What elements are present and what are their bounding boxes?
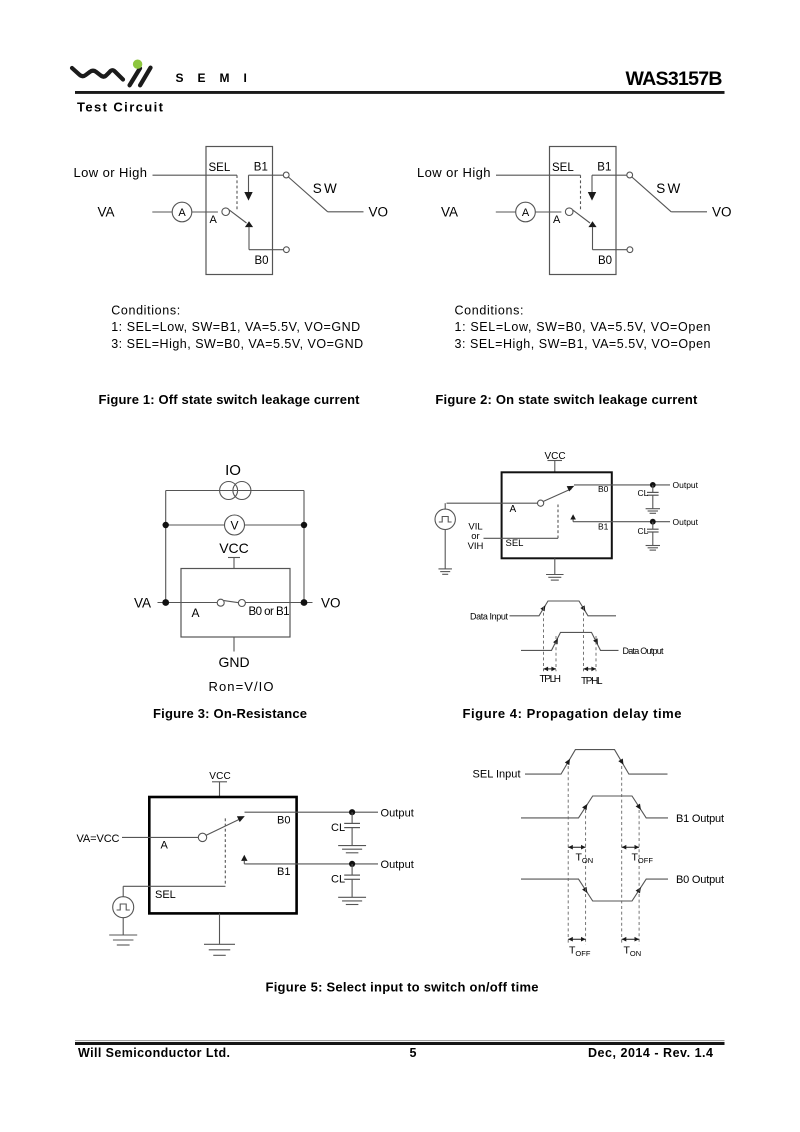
svg-text:Output: Output <box>381 859 414 871</box>
svg-text:1: SEL=Low, SW=B1, VA=5.5V, VO: 1: SEL=Low, SW=B1, VA=5.5V, VO=GND <box>111 320 360 334</box>
svg-text:VIH: VIH <box>468 541 484 552</box>
svg-text:Figure 1: Off state switch lea: Figure 1: Off state switch leakage curre… <box>99 392 361 407</box>
svg-text:GND: GND <box>218 654 249 670</box>
svg-text:Data Input: Data Input <box>470 611 508 621</box>
svg-text:CL: CL <box>638 526 649 536</box>
svg-text:IO: IO <box>225 462 241 479</box>
svg-text:VCC: VCC <box>209 771 230 782</box>
svg-text:3: SEL=High, SW=B0, VA=5.5V, V: 3: SEL=High, SW=B0, VA=5.5V, VO=GND <box>111 337 363 351</box>
svg-text:CL: CL <box>331 822 345 834</box>
svg-text:CL: CL <box>638 488 649 498</box>
svg-text:B0 or B1: B0 or B1 <box>249 606 290 618</box>
svg-text:VO: VO <box>321 595 341 610</box>
svg-text:B1 Output: B1 Output <box>676 813 724 825</box>
svg-text:A: A <box>192 606 200 620</box>
svg-text:Will Semiconductor Ltd.: Will Semiconductor Ltd. <box>78 1046 230 1060</box>
svg-text:Output: Output <box>673 517 699 527</box>
svg-text:B0: B0 <box>255 255 269 267</box>
svg-text:WAS3157B: WAS3157B <box>626 68 723 90</box>
svg-text:SEMI: SEMI <box>176 71 261 85</box>
svg-text:VA: VA <box>98 205 115 220</box>
svg-text:SEL: SEL <box>155 889 176 901</box>
svg-text:Ron=V/IO: Ron=V/IO <box>209 679 274 694</box>
svg-text:3: SEL=High, SW=B1, VA=5.5V, V: 3: SEL=High, SW=B1, VA=5.5V, VO=Open <box>455 337 711 351</box>
svg-text:TON: TON <box>624 945 642 959</box>
svg-text:CL: CL <box>331 874 345 886</box>
svg-text:B0 Output: B0 Output <box>676 874 724 886</box>
svg-text:Figure 2: On state switch leak: Figure 2: On state switch leakage curren… <box>435 392 698 407</box>
svg-text:5: 5 <box>410 1046 417 1060</box>
svg-text:Figure 4: Propagation delay ti: Figure 4: Propagation delay time <box>463 706 682 721</box>
svg-text:Figure 3: On-Resistance: Figure 3: On-Resistance <box>153 706 307 721</box>
svg-text:SEL: SEL <box>506 538 524 549</box>
svg-text:B1: B1 <box>277 866 290 878</box>
svg-text:Dec, 2014 - Rev. 1.4: Dec, 2014 - Rev. 1.4 <box>588 1046 713 1060</box>
svg-text:B1: B1 <box>598 522 609 532</box>
svg-text:Test Circuit: Test Circuit <box>77 99 164 114</box>
svg-text:Low or High: Low or High <box>74 165 148 180</box>
svg-text:Conditions:: Conditions: <box>111 304 180 318</box>
svg-text:SEL Input: SEL Input <box>473 768 521 780</box>
svg-text:A: A <box>210 214 218 226</box>
svg-text:SW: SW <box>313 181 337 196</box>
svg-text:TPLH: TPLH <box>540 674 562 685</box>
svg-text:A: A <box>178 207 186 219</box>
svg-text:VCC: VCC <box>219 540 249 556</box>
svg-text:Conditions:: Conditions: <box>455 304 524 318</box>
svg-text:SEL: SEL <box>209 162 231 174</box>
svg-text:TON: TON <box>576 852 594 866</box>
svg-text:B0: B0 <box>277 815 290 827</box>
svg-text:Output: Output <box>381 808 414 820</box>
svg-text:VA: VA <box>134 595 151 610</box>
svg-text:Output: Output <box>673 480 699 490</box>
svg-text:TOFF: TOFF <box>632 852 654 866</box>
svg-text:VA=VCC: VA=VCC <box>77 833 120 845</box>
svg-text:1: SEL=Low, SW=B0, VA=5.5V, VO: 1: SEL=Low, SW=B0, VA=5.5V, VO=Open <box>455 320 711 334</box>
svg-text:A: A <box>510 504 517 515</box>
svg-text:B1: B1 <box>254 162 268 174</box>
svg-text:Data Output: Data Output <box>623 646 664 656</box>
svg-text:V: V <box>230 518 238 532</box>
svg-text:TPHL: TPHL <box>581 676 603 687</box>
svg-text:B0: B0 <box>598 484 609 494</box>
svg-text:Figure 5: Select input to swit: Figure 5: Select input to switch on/off … <box>266 980 539 995</box>
svg-text:VO: VO <box>369 205 389 220</box>
svg-text:TOFF: TOFF <box>569 945 591 959</box>
svg-text:A: A <box>161 840 169 852</box>
